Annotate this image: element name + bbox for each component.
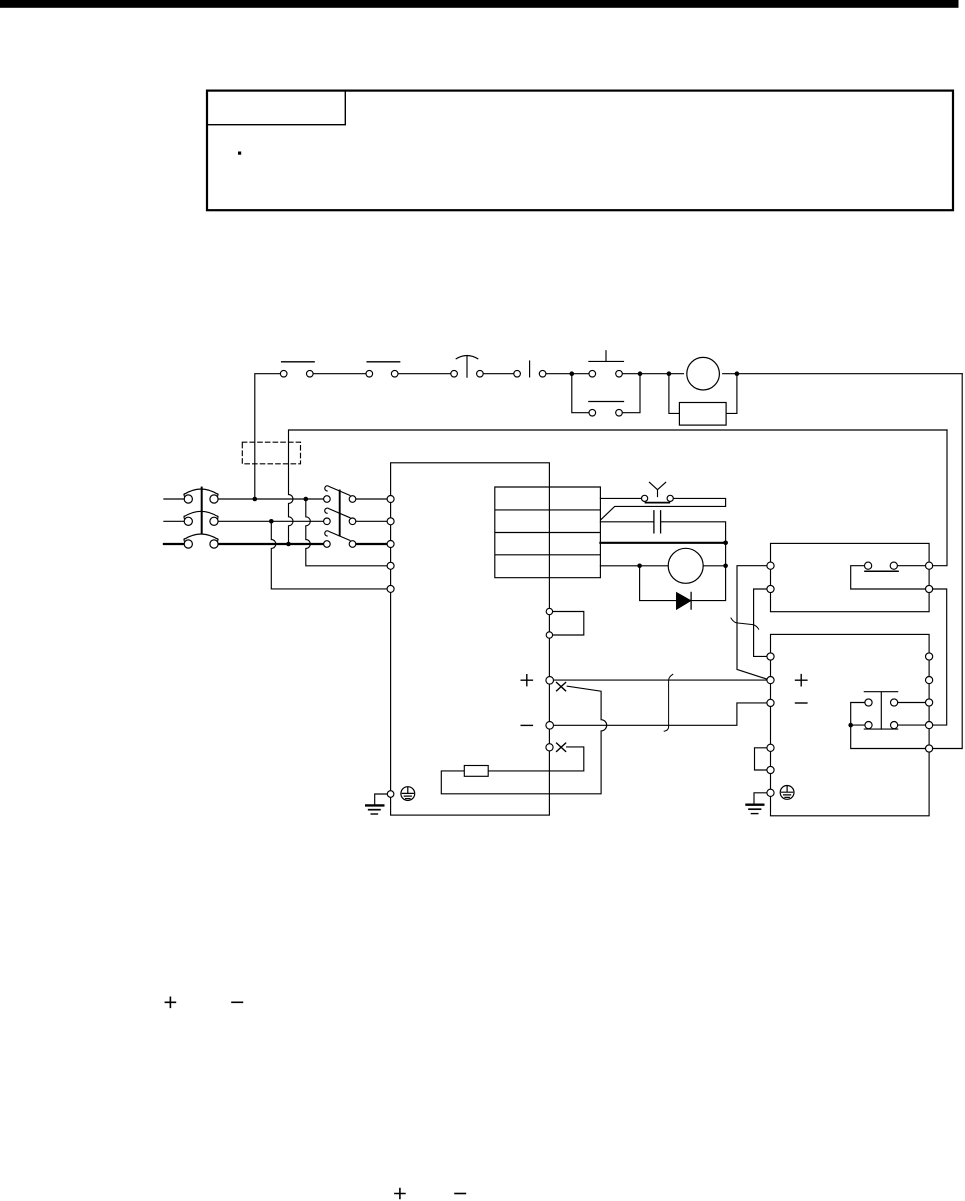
MC pole1 circles	[324, 496, 331, 503]
cable S mark vertical	[664, 674, 673, 731]
plus label lower box	[796, 675, 807, 686]
terminal upper right1	[926, 562, 933, 569]
terminal lower right4	[926, 722, 933, 729]
contact SW1 circles	[280, 370, 287, 377]
wire internal regen path	[441, 686, 606, 794]
minus label lower box	[796, 702, 807, 704]
MC pole3 circles	[324, 541, 331, 548]
contact SW1 bar	[282, 361, 315, 363]
terminal P	[546, 677, 554, 685]
wire control return L3 tap	[289, 430, 948, 544]
NFB pole2 arc	[184, 511, 218, 519]
MC pole2 circles	[324, 518, 331, 525]
contact SW2 bar	[367, 361, 400, 363]
terminal lower left3 minus	[767, 699, 774, 706]
amp PE symbol	[401, 787, 415, 801]
junction dot L2 tap	[269, 519, 274, 524]
note box frame	[207, 91, 953, 211]
amp ground wire	[375, 794, 388, 805]
junction dot pushbutton	[848, 723, 853, 728]
wire L3 row thick	[164, 543, 387, 545]
jumper bracket lower left	[755, 748, 768, 770]
surge absorber leads	[669, 374, 737, 414]
coil MC	[687, 357, 720, 390]
junction dot L3 tap	[286, 542, 291, 547]
pushbutton ON circles	[514, 370, 521, 377]
terminal N	[546, 722, 554, 730]
thermal sensor Y symbol	[649, 482, 665, 496]
plus glyph paragraph2	[395, 1189, 405, 1199]
wire control rung	[255, 374, 962, 499]
wire brake row4	[600, 543, 725, 566]
brake unit box	[771, 543, 930, 611]
diode loop wires	[640, 566, 726, 601]
wire upper left terminal1 to plus	[737, 566, 768, 680]
connector block grid	[495, 487, 601, 578]
capacitor plates	[654, 511, 661, 533]
terminal lower right5	[926, 745, 933, 752]
wire brake unit to test contact	[933, 589, 947, 725]
self-hold branch verticals	[572, 374, 640, 413]
test pushbutton wires	[851, 703, 926, 749]
terminal lower left5	[767, 766, 774, 773]
emergency stop circles	[451, 370, 458, 377]
terminal D	[546, 632, 552, 638]
dashed box line filter	[242, 442, 300, 464]
NFB pole1 arc	[184, 489, 218, 497]
wire L1 tap down to terminal4	[306, 499, 387, 566]
emergency stop mushroom head	[456, 356, 478, 378]
test pushbutton circles top	[865, 699, 872, 706]
branch contact bar	[589, 401, 624, 403]
regenerative resistor body	[464, 766, 488, 777]
wire motor row3 thick	[600, 542, 726, 544]
minus glyph paragraph2	[455, 1193, 465, 1195]
terminal upper right2	[926, 585, 933, 592]
contact SW2 circles	[366, 370, 373, 377]
lower ground bars	[747, 804, 764, 806]
NFB pole1 circles	[184, 495, 192, 503]
relay contact circles	[865, 562, 872, 569]
thermal contact circles	[642, 495, 648, 501]
pushbutton ON plunger	[529, 361, 531, 377]
NFB trip bar	[201, 488, 203, 533]
bullet point	[238, 152, 241, 155]
terminal L1	[387, 496, 394, 503]
wire L2 row	[164, 520, 387, 522]
diode D	[677, 593, 691, 609]
top header bar	[0, 0, 959, 8]
minus glyph paragraph1	[232, 1001, 242, 1003]
amp ground bars	[366, 804, 383, 806]
aux contact T symbol	[589, 351, 624, 362]
cable S mark horizontal	[731, 618, 759, 629]
terminal upper left2	[767, 585, 774, 592]
lower PE symbol	[780, 786, 794, 800]
test pushbutton T bar	[864, 692, 897, 729]
wire N to brake unit	[553, 703, 767, 725]
terminal L11	[387, 562, 394, 569]
terminal lower right1	[926, 653, 933, 660]
X mark C internal	[557, 743, 566, 751]
junction dot brake left	[637, 564, 642, 569]
wire L1 row	[164, 498, 387, 500]
servo amplifier box	[391, 463, 550, 815]
terminal lower left4	[767, 744, 774, 751]
terminal lower left2 plus	[767, 677, 774, 684]
test pushbutton circles bottom	[865, 722, 872, 729]
plus glyph paragraph1	[165, 997, 175, 1007]
resistor unit box	[771, 634, 930, 815]
NFB pole3 circles	[184, 540, 192, 548]
relay contact wires	[851, 566, 926, 589]
MC pole1 blade	[325, 486, 350, 496]
MC pole3 blade	[325, 531, 350, 541]
relay contact bar	[865, 570, 898, 572]
NFB pole2 circles	[184, 517, 192, 525]
MC link bar	[339, 491, 341, 536]
P-D jumper bracket	[553, 612, 584, 636]
terminal lower left1	[767, 653, 774, 660]
terminal lower right3	[926, 699, 933, 706]
brake motor circle	[668, 548, 703, 583]
junction dot brake right	[723, 564, 728, 569]
wire control L3 down to brake unit	[933, 430, 948, 566]
wire P to brake unit	[553, 679, 767, 681]
MC pole2 blade	[325, 508, 350, 518]
junction dot row3 right	[723, 541, 728, 546]
branch contact circles	[589, 409, 596, 416]
wire coil line down to resistor unit	[933, 374, 963, 749]
capacitor wires	[600, 522, 725, 543]
junction dot L1 tap	[304, 497, 309, 502]
terminal L3	[387, 541, 394, 548]
terminal upper left1	[767, 562, 774, 569]
thermal contact bar	[646, 502, 670, 504]
wire upper left terminal2 down	[754, 589, 768, 656]
X mark P internal	[557, 683, 566, 691]
test pushbutton NC bar	[864, 728, 897, 730]
lower ground wire	[754, 793, 767, 803]
aux contact circles top	[589, 370, 596, 377]
junction dots control rung	[570, 371, 575, 376]
note header cell	[207, 91, 345, 125]
wire L2 tap down to terminal5	[271, 521, 387, 589]
NFB pole3 arc	[184, 534, 218, 542]
terminal lower right2	[926, 677, 933, 684]
plus label P terminal	[521, 675, 532, 686]
terminal L2	[387, 518, 394, 525]
surge absorber body	[679, 403, 726, 426]
minus label N terminal	[521, 724, 532, 726]
junction dot L1 control tap	[253, 497, 258, 502]
terminal C	[546, 744, 553, 751]
terminal P1	[546, 608, 552, 614]
wire thermal row1	[600, 498, 725, 520]
amp ground terminal	[387, 791, 394, 798]
terminal lower ground	[767, 789, 774, 796]
terminal L21	[387, 585, 394, 592]
